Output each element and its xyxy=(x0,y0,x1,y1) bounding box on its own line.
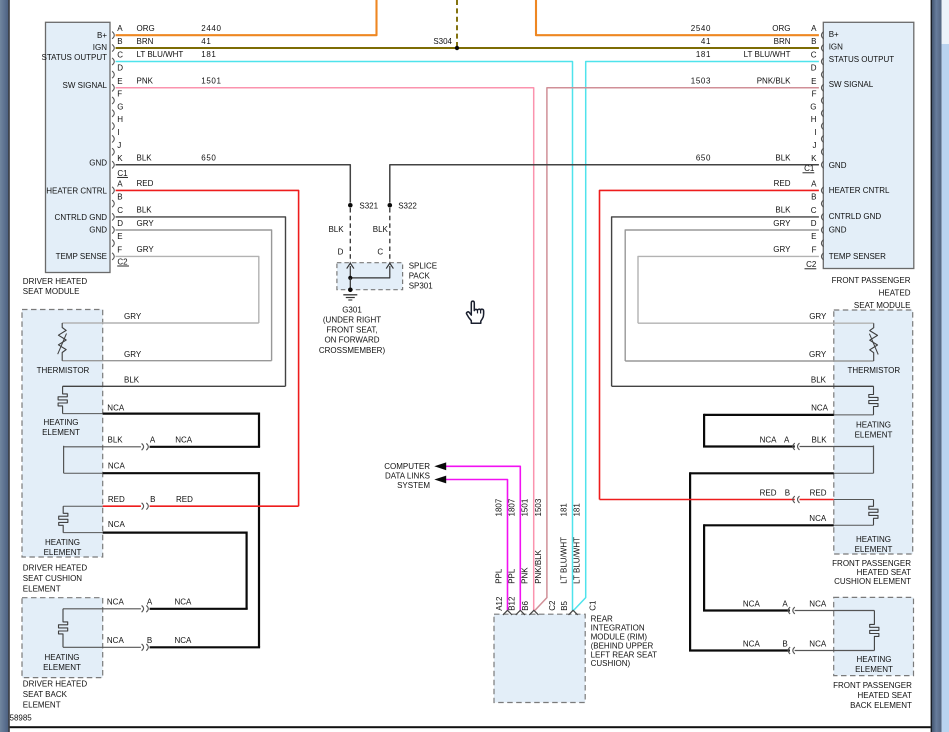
svg-text:HEATING: HEATING xyxy=(856,420,891,429)
wire NCA seat back pin A row passenger xyxy=(703,599,874,610)
svg-text:GRY: GRY xyxy=(773,245,791,254)
svg-text:SP301: SP301 xyxy=(409,281,434,290)
driver seat back element label xyxy=(23,679,88,709)
svg-text:A: A xyxy=(784,435,790,444)
svg-text:F: F xyxy=(812,90,817,99)
svg-text:HEATING: HEATING xyxy=(45,653,80,662)
passenger module label xyxy=(832,276,911,310)
svg-text:A: A xyxy=(782,599,788,608)
svg-text:ELEMENT: ELEMENT xyxy=(44,548,82,557)
wire NCA riser to pin A passenger cushion xyxy=(703,414,705,447)
svg-text:B: B xyxy=(782,639,787,648)
svg-text:181: 181 xyxy=(696,50,711,59)
svg-text:PPL: PPL xyxy=(507,568,516,584)
wire GRY passenger temp senser C2-F xyxy=(638,245,819,323)
RIM label xyxy=(591,615,658,669)
svg-text:(UNDER RIGHT: (UNDER RIGHT xyxy=(323,316,381,325)
svg-text:SEAT CUSHION: SEAT CUSHION xyxy=(23,574,82,583)
svg-text:NCA: NCA xyxy=(811,404,829,413)
passenger seat back element dashed box xyxy=(834,597,914,675)
svg-text:J: J xyxy=(813,141,817,150)
svg-text:B5: B5 xyxy=(560,600,569,610)
svg-text:PPL: PPL xyxy=(495,568,504,584)
svg-text:PNK: PNK xyxy=(521,567,530,584)
svg-text:COMPUTER: COMPUTER xyxy=(384,462,430,471)
heating element label driver cushion stage1 xyxy=(42,418,80,437)
inline connector pin B passenger back xyxy=(788,647,795,654)
wire RED passenger heater cntrl C2-A xyxy=(600,179,819,499)
svg-text:SYSTEM: SYSTEM xyxy=(397,481,430,490)
svg-text:H: H xyxy=(811,115,817,124)
wire NCA riser to seat back pin A driver xyxy=(246,532,248,609)
svg-text:SW SIGNAL: SW SIGNAL xyxy=(829,80,874,89)
svg-text:B: B xyxy=(785,488,790,497)
wire RED pin B row passenger cushion xyxy=(600,488,874,499)
wire PPL 1807 data link to RIM B12 xyxy=(446,466,520,610)
svg-text:C1: C1 xyxy=(589,600,598,611)
heating element driver cushion stage 1 xyxy=(58,386,67,413)
figure number 58985 xyxy=(10,714,33,723)
svg-text:RED: RED xyxy=(137,179,154,188)
svg-text:K: K xyxy=(117,154,123,163)
svg-text:ON FORWARD: ON FORWARD xyxy=(324,336,379,345)
svg-text:TEMP SENSE: TEMP SENSE xyxy=(56,252,107,261)
svg-text:GRY: GRY xyxy=(809,312,827,321)
svg-text:B12: B12 xyxy=(508,596,517,611)
svg-text:RED: RED xyxy=(760,488,777,497)
svg-text:1807: 1807 xyxy=(507,498,516,516)
wire BLK element top row passenger xyxy=(612,376,874,387)
svg-text:181: 181 xyxy=(560,503,569,517)
svg-text:THERMISTOR: THERMISTOR xyxy=(37,366,90,375)
svg-text:BACK ELEMENT: BACK ELEMENT xyxy=(850,701,912,710)
svg-text:SW SIGNAL: SW SIGNAL xyxy=(63,81,108,90)
svg-text:A: A xyxy=(150,436,156,445)
svg-text:BLK: BLK xyxy=(812,435,828,444)
svg-text:HEATING: HEATING xyxy=(856,535,891,544)
svg-text:C1: C1 xyxy=(117,169,128,178)
svg-text:B6: B6 xyxy=(521,600,530,610)
svg-text:S304: S304 xyxy=(433,37,452,46)
passenger seat back element label xyxy=(833,681,912,710)
svg-text:DATA LINKS: DATA LINKS xyxy=(385,471,430,480)
inline connector pin B passenger cushion xyxy=(793,496,800,503)
wire BLK pin A row driver cushion xyxy=(64,436,261,447)
passenger module connector C2 pins A-F xyxy=(805,179,824,269)
wire BLK driver cntrld gnd C2-C xyxy=(116,206,286,387)
svg-text:BLK: BLK xyxy=(775,154,791,163)
svg-text:ELEMENT: ELEMENT xyxy=(43,663,81,672)
front passenger heated seat module box xyxy=(823,22,914,268)
right window scrollbar xyxy=(931,0,949,732)
heating element driver seat back xyxy=(58,609,67,648)
svg-text:1807: 1807 xyxy=(495,498,504,516)
svg-text:ORG: ORG xyxy=(772,24,790,33)
splice pack SP301 box xyxy=(337,261,437,290)
svg-text:A: A xyxy=(117,24,123,33)
svg-text:D: D xyxy=(117,64,123,73)
svg-text:SEAT MODULE: SEAT MODULE xyxy=(854,301,911,310)
svg-text:NCA: NCA xyxy=(743,639,761,648)
splice pack entry arrows pins D C xyxy=(347,263,394,268)
svg-text:NCA: NCA xyxy=(175,436,193,445)
svg-text:SEAT BACK: SEAT BACK xyxy=(23,690,68,699)
heating element label passenger cushion stage2 xyxy=(855,535,893,554)
computer data links system label xyxy=(384,462,430,490)
svg-text:E: E xyxy=(117,77,122,86)
inline connector pin A driver cushion xyxy=(142,443,149,450)
svg-text:TEMP SENSER: TEMP SENSER xyxy=(829,252,886,261)
wire BLK 650 driver GND pin K xyxy=(116,154,351,203)
svg-text:181: 181 xyxy=(201,50,216,59)
svg-text:RED: RED xyxy=(774,179,791,188)
inline connector pin A passenger back xyxy=(788,607,795,614)
passenger cushion element dashed box xyxy=(834,310,913,554)
wire circuit number labels vertical xyxy=(495,498,582,516)
svg-text:41: 41 xyxy=(701,37,711,46)
wire NCA riser to pin A driver cushion xyxy=(258,413,260,447)
svg-text:D: D xyxy=(811,219,817,228)
svg-text:BLK: BLK xyxy=(373,225,389,234)
wire LT BLU/WHT 181 passenger status output pin C xyxy=(574,50,819,610)
svg-text:GRY: GRY xyxy=(809,350,827,359)
svg-text:PNK/BLK: PNK/BLK xyxy=(534,549,543,583)
svg-text:BLK: BLK xyxy=(775,206,791,215)
svg-text:STATUS OUTPUT: STATUS OUTPUT xyxy=(42,53,108,62)
inline connector pin A passenger cushion xyxy=(793,443,800,450)
svg-text:GND: GND xyxy=(829,161,847,170)
wire NCA riser to seat back pin B passenger xyxy=(689,472,691,650)
svg-text:K: K xyxy=(811,154,817,163)
splice S304 xyxy=(433,37,459,50)
driver module connector C1 pins A-K xyxy=(112,24,128,178)
wire NCA seat back pin A row driver xyxy=(63,598,248,609)
svg-text:STATUS OUTPUT: STATUS OUTPUT xyxy=(829,55,895,64)
svg-text:HEATED SEAT: HEATED SEAT xyxy=(857,568,911,577)
driver cushion element dashed box xyxy=(22,310,103,558)
svg-text:GRY: GRY xyxy=(773,219,791,228)
svg-text:181: 181 xyxy=(573,503,582,517)
svg-text:DRIVER HEATED: DRIVER HEATED xyxy=(23,563,88,572)
driver module internal labels xyxy=(42,31,108,261)
svg-text:NCA: NCA xyxy=(107,403,125,412)
wire NCA element1 bottom row driver xyxy=(63,403,259,413)
svg-text:RED: RED xyxy=(108,495,125,504)
svg-text:ELEMENT: ELEMENT xyxy=(855,545,893,554)
svg-text:58985: 58985 xyxy=(10,714,33,723)
svg-text:ELEMENT: ELEMENT xyxy=(23,701,61,710)
svg-text:HEATER CNTRL: HEATER CNTRL xyxy=(829,186,890,195)
svg-text:ELEMENT: ELEMENT xyxy=(23,584,61,593)
svg-text:S322: S322 xyxy=(398,202,417,211)
svg-text:FRONT PASSENGER: FRONT PASSENGER xyxy=(832,559,911,568)
svg-text:BLK: BLK xyxy=(124,376,140,385)
svg-text:BRN: BRN xyxy=(137,37,154,46)
splice S322 xyxy=(388,202,418,211)
svg-text:HEATING: HEATING xyxy=(857,655,892,664)
svg-text:CUSHION ELEMENT: CUSHION ELEMENT xyxy=(834,577,911,586)
driver cushion element label xyxy=(23,563,88,593)
wire NCA element1 bottom row passenger xyxy=(704,404,873,415)
wire BLK dashed S322 to splice pack pin C xyxy=(373,208,390,263)
svg-text:F: F xyxy=(117,245,122,254)
svg-text:41: 41 xyxy=(201,37,211,46)
svg-text:RED: RED xyxy=(810,488,827,497)
svg-text:ELEMENT: ELEMENT xyxy=(855,430,893,439)
svg-text:REAR: REAR xyxy=(591,615,613,624)
wire NCA element2 bottom row passenger xyxy=(704,514,873,525)
svg-text:HEATED SEAT: HEATED SEAT xyxy=(858,691,912,700)
svg-text:PNK: PNK xyxy=(137,77,154,86)
wire RED pin B row driver cushion xyxy=(63,495,298,506)
svg-text:GND: GND xyxy=(89,226,107,235)
svg-text:CROSSMEMBER): CROSSMEMBER) xyxy=(319,346,386,355)
ground G301 symbol xyxy=(343,288,357,301)
svg-text:IGN: IGN xyxy=(829,43,843,52)
svg-text:MODULE (RIM): MODULE (RIM) xyxy=(591,633,648,642)
svg-text:A: A xyxy=(117,179,123,188)
wire BRN 41 B+ ignition both modules xyxy=(116,37,819,48)
left window scrollbar xyxy=(0,0,10,732)
wire ORG 2540 passenger B+ pin A xyxy=(536,0,819,35)
svg-text:CNTRLD GND: CNTRLD GND xyxy=(829,212,882,221)
wire BLK passenger cntrld gnd C2-C xyxy=(612,206,819,387)
svg-text:C2: C2 xyxy=(548,600,557,611)
wire BRN dashed riser to top xyxy=(456,0,458,47)
svg-text:2540: 2540 xyxy=(691,24,711,33)
svg-text:IGN: IGN xyxy=(93,43,107,52)
svg-text:NCA: NCA xyxy=(809,514,827,523)
svg-text:B: B xyxy=(811,37,816,46)
wire color labels vertical xyxy=(495,537,582,584)
splice pack internal bus xyxy=(348,266,390,290)
svg-text:NCA: NCA xyxy=(743,599,761,608)
wire BLK pin A row passenger cushion xyxy=(703,435,874,446)
wire ORG 2440 driver B+ pin A xyxy=(116,0,377,35)
svg-text:DRIVER HEATED: DRIVER HEATED xyxy=(23,277,88,286)
passenger module internal labels xyxy=(829,30,895,261)
svg-text:G301: G301 xyxy=(342,305,362,314)
splice S321 xyxy=(348,202,379,211)
svg-text:F: F xyxy=(812,245,817,254)
svg-text:PNK/BLK: PNK/BLK xyxy=(757,77,791,86)
svg-text:E: E xyxy=(117,232,122,241)
RIM connector entry bumps xyxy=(503,610,578,615)
svg-text:1501: 1501 xyxy=(521,498,530,516)
svg-text:BLK: BLK xyxy=(108,436,124,445)
svg-text:650: 650 xyxy=(696,154,711,163)
svg-text:GRY: GRY xyxy=(124,350,142,359)
svg-text:B: B xyxy=(150,495,155,504)
svg-text:GND: GND xyxy=(829,226,847,235)
svg-text:A: A xyxy=(811,24,817,33)
svg-text:NCA: NCA xyxy=(108,461,126,470)
svg-text:C2: C2 xyxy=(117,257,128,266)
wire PPL 1807 data link to RIM A12 xyxy=(446,480,508,611)
svg-text:LT BLU/WHT: LT BLU/WHT xyxy=(560,537,569,584)
svg-text:B: B xyxy=(147,636,152,645)
wire NCA seat back pin B row passenger xyxy=(689,639,874,650)
svg-text:D: D xyxy=(811,64,817,73)
svg-text:I: I xyxy=(117,128,119,137)
svg-text:CNTRLD GND: CNTRLD GND xyxy=(55,213,108,222)
svg-text:C: C xyxy=(811,206,817,215)
svg-text:BLK: BLK xyxy=(137,206,153,215)
svg-text:B+: B+ xyxy=(97,31,107,40)
wire GRY thermistor top row passenger xyxy=(638,312,874,323)
svg-text:BRN: BRN xyxy=(774,37,791,46)
inline connector pin B driver back xyxy=(142,644,149,651)
rear integration module RIM dashed box xyxy=(494,614,585,702)
svg-text:G: G xyxy=(117,102,123,111)
wire GRY driver gnd C2-D xyxy=(116,219,272,361)
svg-text:2440: 2440 xyxy=(201,24,221,33)
svg-text:C: C xyxy=(117,206,123,215)
svg-text:B: B xyxy=(117,37,122,46)
svg-text:BLK: BLK xyxy=(137,154,153,163)
svg-text:E: E xyxy=(811,232,816,241)
computer data links arrowheads xyxy=(434,462,446,483)
svg-text:NCA: NCA xyxy=(809,599,827,608)
svg-text:FRONT PASSENGER: FRONT PASSENGER xyxy=(832,276,911,285)
wire PNK/BLK 1503 passenger SW signal pin E xyxy=(535,77,819,611)
svg-text:HEATING: HEATING xyxy=(44,418,79,427)
wire NCA riser to seat back pin B driver xyxy=(258,472,260,647)
heating element driver cushion stage 2 xyxy=(59,506,68,532)
wire NCA riser to seat back pin A passenger xyxy=(703,524,705,610)
svg-text:ELEMENT: ELEMENT xyxy=(855,665,893,674)
RIM pin labels vertical xyxy=(495,596,598,611)
svg-text:LT BLU/WHT: LT BLU/WHT xyxy=(137,50,184,59)
svg-text:NCA: NCA xyxy=(107,598,125,607)
svg-text:THERMISTOR: THERMISTOR xyxy=(847,366,900,375)
svg-text:LEFT REAR SEAT: LEFT REAR SEAT xyxy=(591,650,658,659)
svg-text:G: G xyxy=(810,102,816,111)
svg-text:BLK: BLK xyxy=(811,376,827,385)
inline connector pin B driver cushion xyxy=(142,503,149,510)
svg-text:ORG: ORG xyxy=(137,24,155,33)
wire GRY thermistor top row driver xyxy=(62,312,259,323)
wire BLK 650 passenger GND pin K xyxy=(390,154,819,203)
svg-text:GRY: GRY xyxy=(137,245,155,254)
svg-text:1503: 1503 xyxy=(691,77,711,86)
svg-text:FRONT PASSENGER: FRONT PASSENGER xyxy=(833,681,912,690)
svg-text:NCA: NCA xyxy=(108,520,126,529)
svg-text:E: E xyxy=(811,77,816,86)
inline connector pin A driver back xyxy=(142,605,149,612)
svg-text:C: C xyxy=(377,248,383,257)
ground G301 label xyxy=(319,305,386,354)
svg-text:NCA: NCA xyxy=(760,435,778,444)
svg-text:H: H xyxy=(117,115,123,124)
wire GRY thermistor bottom row driver xyxy=(62,350,271,361)
wire BLK element top row driver xyxy=(63,376,286,387)
svg-text:SEAT MODULE: SEAT MODULE xyxy=(23,287,80,296)
svg-text:A: A xyxy=(811,179,817,188)
bottom frame line xyxy=(10,726,931,728)
svg-text:SPLICE: SPLICE xyxy=(409,261,437,270)
svg-text:LT BLU/WHT: LT BLU/WHT xyxy=(744,50,791,59)
svg-text:NCA: NCA xyxy=(107,636,125,645)
svg-text:F: F xyxy=(117,90,122,99)
svg-text:ELEMENT: ELEMENT xyxy=(42,428,80,437)
thermistor passenger xyxy=(847,323,900,375)
passenger cushion element label xyxy=(832,559,911,586)
svg-text:GRY: GRY xyxy=(124,312,142,321)
wire LT BLU/WHT 181 driver status output pin C xyxy=(116,50,573,610)
svg-text:PACK: PACK xyxy=(409,271,431,280)
driver seat back element dashed box xyxy=(22,598,103,678)
driver module label xyxy=(23,277,88,296)
heating element passenger seat back xyxy=(870,611,879,651)
wire GRY passenger gnd C2-D xyxy=(625,219,819,361)
svg-text:C: C xyxy=(811,51,817,60)
svg-text:S321: S321 xyxy=(359,202,378,211)
heating element passenger cushion stage 2 xyxy=(869,500,878,526)
svg-text:BLK: BLK xyxy=(328,225,344,234)
wire BLK dashed S321 to splice pack pin D xyxy=(328,208,350,263)
svg-text:D: D xyxy=(117,219,123,228)
svg-text:HEATING: HEATING xyxy=(45,538,80,547)
wire GRY thermistor bottom row passenger xyxy=(625,350,874,361)
svg-text:1501: 1501 xyxy=(201,77,221,86)
svg-text:A: A xyxy=(147,598,153,607)
svg-text:NCA: NCA xyxy=(175,636,193,645)
svg-text:RED: RED xyxy=(176,495,193,504)
wire NCA element2 bottom row driver xyxy=(63,520,246,533)
svg-text:GND: GND xyxy=(89,158,107,167)
svg-text:B: B xyxy=(811,193,816,202)
svg-text:CUSHION): CUSHION) xyxy=(591,659,631,668)
passenger module connector C1 pins A-K xyxy=(803,24,824,173)
thermistor driver xyxy=(37,323,90,375)
mouse cursor xyxy=(466,301,483,323)
svg-text:FRONT SEAT,: FRONT SEAT, xyxy=(326,326,377,335)
heating element label passenger cushion stage1 xyxy=(855,420,893,439)
svg-text:B+: B+ xyxy=(829,30,839,39)
svg-text:C2: C2 xyxy=(806,260,817,269)
driver module connector C2 pins A-F xyxy=(112,179,129,266)
heating element label driver back xyxy=(43,653,81,672)
heating element label driver cushion stage2 xyxy=(44,538,82,557)
svg-text:(BEHIND UPPER: (BEHIND UPPER xyxy=(591,641,654,650)
wire PNK 1501 driver SW signal pin E xyxy=(116,77,534,611)
svg-text:J: J xyxy=(117,141,121,150)
heating element label passenger back xyxy=(855,655,893,674)
driver heated seat module box xyxy=(46,22,111,272)
svg-text:A12: A12 xyxy=(495,596,504,611)
svg-text:LT BLU/WHT: LT BLU/WHT xyxy=(573,537,582,584)
heating element passenger cushion stage 1 xyxy=(869,386,878,415)
svg-text:1503: 1503 xyxy=(534,498,543,516)
svg-text:DRIVER HEATED: DRIVER HEATED xyxy=(23,679,88,688)
wire RED driver heater cntrl C2-A xyxy=(116,179,299,506)
svg-text:HEATED: HEATED xyxy=(879,289,911,298)
svg-text:NCA: NCA xyxy=(809,639,827,648)
svg-text:HEATER CNTRL: HEATER CNTRL xyxy=(46,186,107,195)
wire NCA seat back pin B row driver xyxy=(63,636,260,647)
svg-text:GRY: GRY xyxy=(137,219,155,228)
wire NCA stage link row passenger xyxy=(690,446,873,474)
svg-text:C: C xyxy=(117,51,123,60)
svg-text:B: B xyxy=(117,193,122,202)
svg-text:650: 650 xyxy=(201,154,216,163)
wire NCA stage link row driver xyxy=(64,446,259,473)
svg-text:I: I xyxy=(814,128,816,137)
svg-text:INTEGRATION: INTEGRATION xyxy=(591,624,645,633)
svg-text:NCA: NCA xyxy=(175,598,193,607)
svg-text:D: D xyxy=(338,248,344,257)
